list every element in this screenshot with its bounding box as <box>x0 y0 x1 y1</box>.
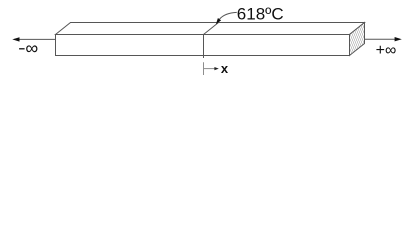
section divider line on front face <box>203 35 205 59</box>
bar hatched right end face <box>350 23 365 56</box>
svg-text:x: x <box>221 61 229 76</box>
x axis arrow <box>204 68 216 70</box>
bar front face <box>56 35 350 56</box>
bar top face <box>56 23 365 35</box>
svg-text:∞: ∞ <box>25 38 38 58</box>
svg-text:+∞: +∞ <box>376 42 397 59</box>
temperature leader line <box>220 12 237 19</box>
x axis origin tick <box>203 62 205 75</box>
section divider line on top face <box>204 23 219 35</box>
leader arrowhead <box>216 18 221 24</box>
left arrow to -infinity <box>15 38 56 40</box>
right arrow to +infinity <box>365 38 397 40</box>
svg-text:618ºC: 618ºC <box>237 5 284 24</box>
label -infinity <box>19 48 25 50</box>
